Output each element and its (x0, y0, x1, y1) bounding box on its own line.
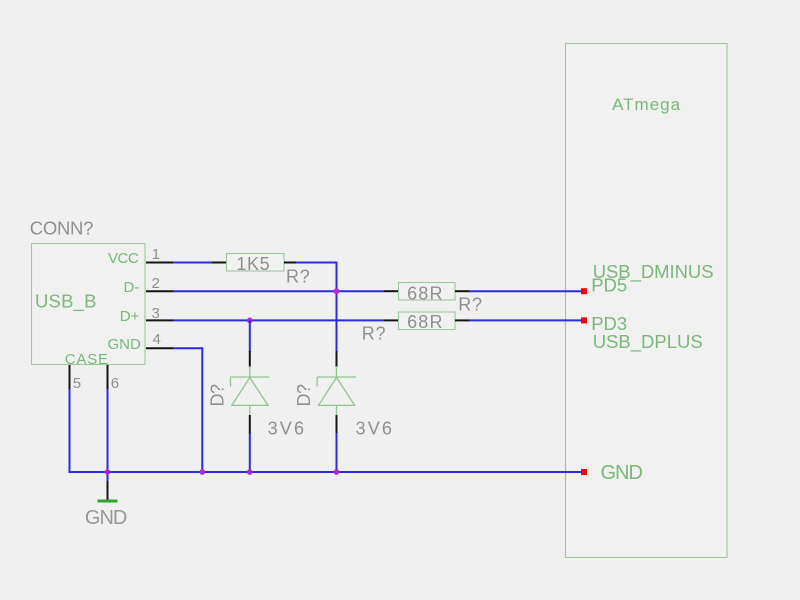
svg-text:R?: R? (458, 294, 483, 314)
pin 2 stub (146, 290, 174, 292)
svg-text:D?: D? (208, 384, 228, 406)
wire R3 to PD3 pin (469, 319, 581, 321)
wire vertical D+ down to D1 (249, 320, 251, 352)
svg-text:1: 1 (152, 246, 160, 263)
svg-text:CASE: CASE (65, 351, 109, 368)
wire R1 to corner (296, 262, 338, 264)
svg-text:6: 6 (111, 375, 119, 392)
pin PD3 endpoint square (581, 317, 587, 323)
zener diode D2 (317, 351, 356, 434)
resistor R3 68R (384, 312, 470, 330)
svg-text:GND: GND (107, 336, 141, 353)
junction D+ / zener column (247, 318, 253, 324)
svg-text:PD5: PD5 (591, 275, 627, 296)
resistor R1 1K5 (212, 254, 297, 272)
svg-text:4: 4 (153, 331, 161, 348)
junction rail / pin4 column (199, 469, 205, 475)
svg-text:3V6: 3V6 (268, 418, 307, 438)
pin 3 stub (146, 319, 174, 321)
svg-text:CONN?: CONN? (30, 217, 93, 238)
svg-text:1K5: 1K5 (236, 254, 270, 274)
svg-text:2: 2 (152, 275, 160, 292)
svg-text:VCC: VCC (108, 250, 139, 267)
pin 4 stub (146, 347, 174, 349)
pin 5 stub (69, 365, 71, 390)
ground symbol (98, 481, 118, 501)
junction rail / D1 (247, 469, 253, 475)
wire D- pin2 to R2 (173, 290, 384, 292)
zener diode D1 (231, 351, 270, 434)
wire vertical corner down to D2 (336, 263, 338, 353)
wire R2 to PD5 pin (469, 290, 581, 292)
pin PD5 endpoint square (581, 288, 587, 294)
svg-text:USB_B: USB_B (35, 291, 97, 313)
svg-text:ATmega: ATmega (612, 95, 681, 114)
svg-text:3: 3 (152, 305, 160, 322)
junction rail / pin6 / gnd symbol (105, 469, 111, 475)
junction rail / D2 (334, 469, 340, 475)
svg-text:68R: 68R (407, 312, 444, 332)
svg-text:D+: D+ (120, 308, 140, 325)
wire D2 bottom to rail (336, 433, 338, 473)
resistor R2 68R (384, 283, 470, 301)
svg-text:D?: D? (294, 384, 314, 406)
svg-text:68R: 68R (407, 283, 444, 303)
svg-text:3V6: 3V6 (356, 418, 395, 438)
svg-text:GND: GND (85, 507, 127, 529)
pin GND endpoint square (ATmega) (581, 469, 587, 475)
wire VCC pin1 to R1 (173, 262, 213, 264)
pin 1 stub (146, 262, 174, 264)
svg-text:R?: R? (362, 324, 387, 344)
wire pin6 down through rail to gnd stub (107, 389, 109, 482)
wire D+ pin3 to R3 (173, 319, 384, 321)
wire GND pin4 to corner (173, 347, 203, 349)
connector CONN? USB_B body box (32, 244, 146, 365)
wire vertical pin4 corner down to rail (201, 348, 203, 473)
svg-text:GND: GND (601, 462, 643, 484)
wire pin5 down to rail (69, 389, 71, 473)
pin 6 stub (107, 365, 109, 390)
svg-text:USB_DPLUS: USB_DPLUS (593, 331, 703, 353)
wire D1 bottom to rail (249, 433, 251, 473)
svg-text:R?: R? (286, 266, 311, 286)
svg-text:D-: D- (123, 279, 139, 296)
op-amp U? ATmega body box (566, 44, 728, 558)
wire ground rail (69, 471, 582, 473)
junction D- / zener column (334, 288, 340, 294)
svg-text:5: 5 (73, 375, 81, 392)
